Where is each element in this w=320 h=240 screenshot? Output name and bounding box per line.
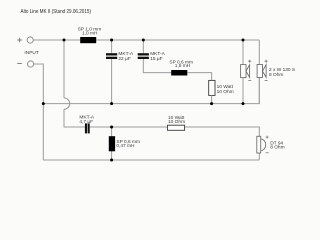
node top LS1 [242, 39, 245, 42]
wire hop [64, 98, 70, 109]
svg-text:Alto Line MK II (Stand 29.06.2: Alto Line MK II (Stand 29.06.2015) [21, 9, 92, 15]
capacitor C2 15 µF [138, 40, 172, 73]
node return LS1 [242, 102, 245, 105]
svg-text:15 µF: 15 µF [150, 56, 162, 62]
svg-text:10 Ohm: 10 Ohm [168, 119, 185, 125]
node return minus [42, 102, 45, 105]
wire tweeter branch [90, 127, 260, 136]
svg-text:8 Ohm: 8 Ohm [270, 145, 284, 151]
tweeter DT 94 [257, 136, 285, 153]
resistor R1 10 Ohm [209, 80, 234, 103]
label INPUT [24, 50, 38, 56]
svg-text:4,7 µF: 4,7 µF [79, 119, 93, 125]
speaker LS1 W 130 S [241, 40, 252, 104]
wire top rail [33, 39, 259, 41]
title [21, 9, 92, 15]
node top C2 [142, 39, 145, 42]
input terminal + [17, 37, 33, 43]
node top feed [63, 39, 66, 42]
svg-text:1,5 mH: 1,5 mH [175, 63, 191, 69]
speaker LS2 W 130 S [257, 40, 295, 104]
svg-text:1,0 mH: 1,0 mH [82, 31, 98, 37]
node return R1 [210, 102, 213, 105]
wire minus lead [34, 64, 44, 160]
inductor L2 1,5 mH [169, 60, 211, 81]
wire tweeter feed vertical [63, 40, 65, 98]
wire tweeter bottom [258, 153, 260, 160]
svg-text:10 Ohm: 10 Ohm [217, 89, 234, 95]
wire return rail [43, 78, 259, 104]
node branch L3 [110, 126, 113, 129]
capacitor C3 4,7 µF [79, 115, 94, 134]
inductor L3 0,47 mH [109, 127, 140, 160]
input terminal - [17, 61, 33, 67]
wire bottom rail [43, 159, 259, 161]
resistor R2 10 Ohm [168, 115, 186, 130]
svg-text:22 µF: 22 µF [118, 56, 130, 62]
svg-text:INPUT: INPUT [24, 50, 38, 56]
node bottom L3 [110, 159, 113, 162]
capacitor C1 22 µF [106, 40, 134, 104]
svg-text:8 Ohm: 8 Ohm [269, 72, 283, 78]
wire hop to branch [64, 109, 85, 127]
inductor L1 1,0 mH [78, 27, 102, 44]
node top C1 [110, 39, 113, 42]
svg-text:0,47 mH: 0,47 mH [116, 143, 135, 149]
node return C1 [110, 102, 113, 105]
